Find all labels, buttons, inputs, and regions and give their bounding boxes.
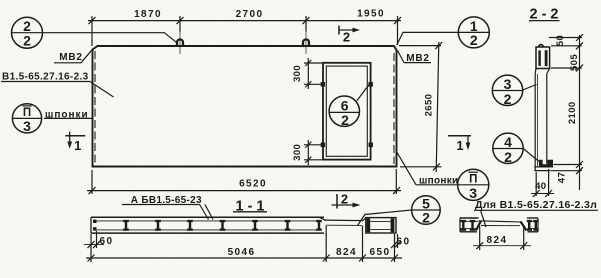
svg-text:60: 60 [100,236,114,247]
svg-text:П: П [469,173,477,185]
svg-text:300: 300 [292,65,303,82]
svg-text:650: 650 [370,247,391,258]
svg-text:2: 2 [504,91,512,107]
svg-text:В1.5-65.27.16-2.3: В1.5-65.27.16-2.3 [2,72,89,83]
svg-text:Для В1.5-65.27.16-2.3л: Для В1.5-65.27.16-2.3л [475,199,597,211]
svg-text:60: 60 [397,236,411,247]
svg-text:П: П [23,107,31,119]
svg-text:2: 2 [341,191,348,206]
svg-text:4: 4 [504,134,512,150]
svg-text:505: 505 [569,54,580,71]
svg-text:3: 3 [504,76,512,92]
svg-text:2: 2 [341,112,349,128]
svg-text:2650: 2650 [424,94,435,117]
svg-text:2: 2 [422,210,430,226]
svg-text:50: 50 [555,35,566,46]
svg-text:2: 2 [343,29,350,44]
svg-text:1: 1 [456,138,463,153]
svg-text:5046: 5046 [228,247,256,258]
svg-text:6520: 6520 [239,179,267,190]
svg-text:824: 824 [336,247,357,258]
svg-text:2700: 2700 [236,9,264,20]
svg-text:1870: 1870 [134,9,162,20]
svg-text:2100: 2100 [567,101,578,124]
svg-text:2: 2 [470,32,478,48]
svg-text:47: 47 [557,172,568,183]
svg-text:МВ2: МВ2 [59,52,83,63]
svg-text:1950: 1950 [357,9,385,20]
svg-text:2: 2 [504,149,512,165]
svg-text:824: 824 [487,235,508,246]
svg-text:2: 2 [23,32,31,48]
svg-text:40: 40 [535,181,546,192]
svg-text:1: 1 [74,138,81,153]
svg-text:3: 3 [23,118,31,134]
svg-text:300: 300 [292,144,303,161]
